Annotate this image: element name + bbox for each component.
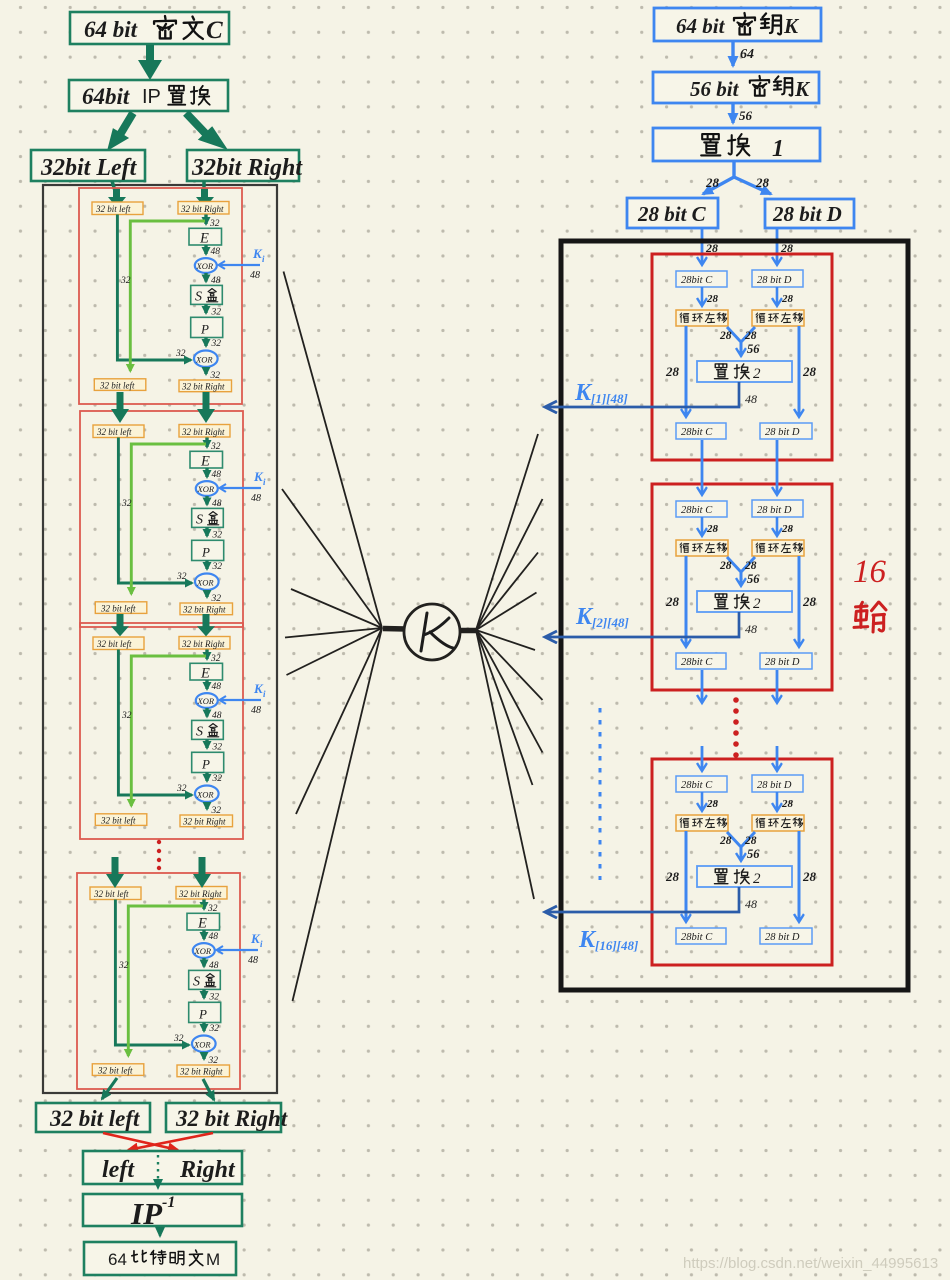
svg-text:28 bit D: 28 bit D	[772, 202, 842, 226]
right stub from K node	[458, 628, 478, 634]
arrow round2 to round3 left	[111, 614, 129, 636]
wire key round2 exit D	[776, 670, 779, 702]
red swap arrow left-to-right	[103, 1133, 178, 1150]
svg-text:https://blog.csdn.net/weixin_4: https://blog.csdn.net/weixin_44995613	[683, 1255, 938, 1272]
svg-text:64: 64	[740, 47, 754, 62]
box permutation choice 1	[653, 128, 820, 162]
key round 1	[546, 254, 832, 460]
arrow IP to plaintext	[159, 1227, 161, 1236]
label K[2][48]	[575, 604, 629, 630]
wire C into key round 1	[701, 228, 704, 264]
arrow round1 to round2 left	[111, 392, 129, 423]
arrow round3 to round4 right	[193, 857, 211, 888]
Feistel round 1	[79, 188, 265, 404]
svg-text:[1][48]: [1][48]	[591, 391, 628, 406]
label K[1][48]	[574, 380, 628, 406]
thick arrow into round1 right	[196, 188, 214, 208]
svg-text:C: C	[206, 17, 223, 44]
wire Left box into round 1	[112, 181, 116, 194]
svg-text:32bit Left: 32bit Left	[40, 155, 138, 181]
box 56bit key K	[653, 72, 819, 103]
outer black frame around 4 Feistel rounds	[43, 185, 277, 1093]
Feistel round 4	[77, 873, 263, 1089]
arrow round4 to final right	[203, 1079, 214, 1100]
svg-text:64 bit: 64 bit	[676, 14, 726, 38]
arrow round3 to round4 left	[106, 857, 124, 888]
red swap arrow right-to-left	[128, 1133, 213, 1150]
svg-text:16: 16	[853, 554, 887, 590]
svg-text:1: 1	[772, 136, 784, 162]
box final 32bit Right	[166, 1103, 288, 1132]
box 28bit C	[627, 198, 718, 228]
svg-text:K: K	[794, 77, 811, 101]
svg-text:64: 64	[108, 1250, 127, 1269]
K node circle	[404, 604, 460, 660]
red ellipsis dots key schedule	[733, 697, 739, 758]
key round 16	[546, 759, 832, 965]
svg-text:64bit: 64bit	[82, 84, 130, 109]
wire D into key round 1	[776, 228, 779, 264]
arrow round1 to round2 right	[197, 392, 215, 423]
svg-text:[16][48]: [16][48]	[595, 938, 638, 953]
label K[16][48]	[578, 927, 638, 953]
right key fan wires	[476, 434, 543, 899]
thick arrow IP to Left	[107, 111, 136, 151]
box inverse IP	[83, 1194, 242, 1231]
svg-text:32 bit Right: 32 bit Right	[175, 1106, 288, 1131]
ellipsis dots between round3 and round4	[157, 840, 161, 870]
svg-text:-1: -1	[162, 1194, 175, 1211]
wire into key round16 D	[776, 746, 779, 770]
box 32bit Right	[187, 150, 303, 181]
svg-text:56 bit: 56 bit	[690, 77, 740, 101]
wire key round1 to round2 D	[776, 440, 779, 494]
box 64 bit plaintext M	[84, 1242, 236, 1275]
Feistel round 2	[80, 411, 266, 627]
left key fan wires	[282, 272, 382, 1002]
svg-text:64 bit: 64 bit	[84, 17, 138, 42]
svg-text:Right: Right	[179, 1157, 236, 1183]
svg-text:56: 56	[739, 108, 753, 123]
blue dashed ellipsis line	[599, 708, 602, 880]
svg-text:M: M	[206, 1250, 220, 1269]
svg-text:32bit Right: 32bit Right	[191, 155, 303, 181]
svg-text:left: left	[102, 1157, 135, 1183]
arrow 64key to 56key	[731, 42, 734, 66]
box swapped left Right	[83, 1151, 242, 1184]
key round 2	[546, 484, 832, 690]
svg-text:IP: IP	[130, 1196, 163, 1231]
thick arrow ciphertext to IP	[138, 45, 162, 80]
arrow 56key to PC1	[731, 103, 734, 123]
box 64bit ciphertext C	[70, 12, 229, 44]
arrow round4 to final left	[102, 1078, 117, 1099]
wire key round1 to round2 C	[701, 440, 704, 494]
thick arrow into round1 left	[108, 188, 126, 208]
svg-text:IP: IP	[142, 86, 161, 108]
left stub to K node	[383, 626, 406, 632]
svg-text:28 bit C: 28 bit C	[637, 202, 707, 226]
svg-text:28: 28	[755, 175, 770, 190]
Feistel round 3	[80, 623, 266, 839]
svg-text:32 bit left: 32 bit left	[49, 1106, 140, 1131]
K node label	[421, 613, 453, 651]
box 28bit D	[765, 199, 854, 228]
box 64bit key K	[654, 8, 821, 41]
svg-text:28: 28	[705, 175, 720, 190]
arrow round2 to round3 right	[197, 614, 215, 636]
box 32bit Left	[31, 150, 145, 181]
big black frame 16 rounds	[561, 241, 908, 990]
box 64bit IP permutation	[69, 80, 228, 111]
svg-text:K: K	[783, 14, 800, 38]
wire into key round16 C	[701, 746, 704, 770]
svg-text:[2][48]: [2][48]	[592, 615, 629, 630]
box final 32bit left	[36, 1103, 150, 1132]
wire Right box into round 1	[202, 181, 206, 192]
thick arrow IP to Right	[183, 110, 228, 150]
wire key round2 exit C	[701, 670, 704, 702]
green dotted divider wire	[157, 1155, 159, 1186]
split wire PC1 to C and D	[732, 161, 735, 177]
